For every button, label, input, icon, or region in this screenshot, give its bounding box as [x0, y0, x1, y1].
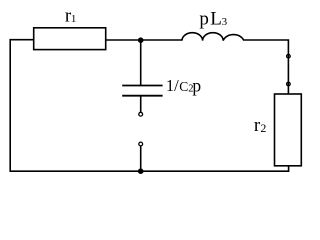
svg-text:1/: 1/ [166, 76, 179, 95]
inductor L3 (three humps) [182, 33, 244, 41]
wire inductor to right branch [244, 40, 289, 94]
terminal circle middle top [139, 112, 143, 116]
wire middle terminal to bottom rail [140, 146, 142, 171]
svg-text:p: p [199, 9, 209, 30]
wire capacitor to middle terminal [140, 96, 142, 112]
capacitor C2 top plate [122, 85, 162, 87]
svg-text:1: 1 [71, 13, 77, 25]
capacitor C2 bottom plate [122, 95, 162, 97]
wire junction to capacitor [140, 40, 142, 86]
svg-text:2: 2 [260, 121, 266, 135]
terminal circle right bottom [287, 82, 291, 86]
terminal circle middle bottom [139, 142, 143, 146]
node junction bottom [138, 168, 144, 174]
svg-text:L: L [210, 9, 222, 30]
svg-text:C: C [179, 79, 188, 94]
node junction top [138, 37, 144, 43]
wire r1 to inductor [106, 39, 182, 41]
svg-text:p: p [192, 75, 201, 95]
resistor R1 [34, 28, 106, 50]
resistor R2 [275, 94, 302, 166]
terminal circle right top [287, 54, 291, 58]
svg-text:3: 3 [222, 16, 228, 28]
wire outer loop: left rail, bottom rail, step to r2 bottom [10, 40, 288, 172]
